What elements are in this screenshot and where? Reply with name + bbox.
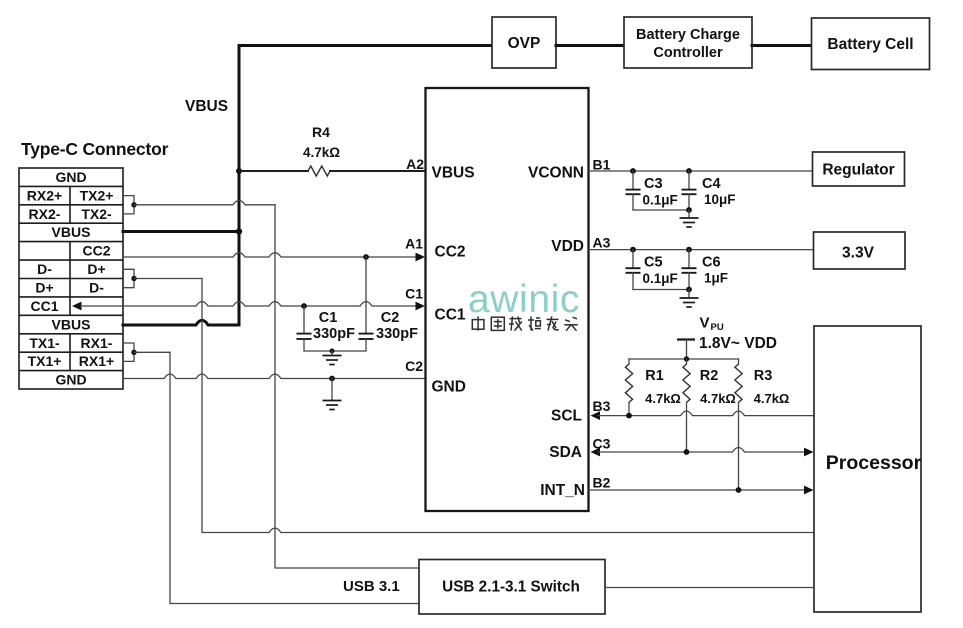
capacitor C5 [626,250,641,290]
power VPU symbol [677,340,695,360]
label VPU [700,315,724,334]
svg-text:VDD: VDD [551,238,584,255]
svg-text:SCL: SCL [551,408,582,425]
svg-text:GND: GND [432,379,466,396]
capacitor C3 [626,171,641,210]
svg-text:Processor: Processor [826,452,922,474]
junction CC1 cap C1 tee [301,303,307,309]
svg-text:R3: R3 [754,368,773,384]
wire GND row12 to IC with hops [123,374,426,378]
svg-text:VBUS: VBUS [52,316,91,332]
wire controller to battery cell [752,44,812,47]
wire INT_N to processor [588,489,805,491]
junction CC2 cap C2 tee [363,254,369,260]
wire VBUS row9 to bus with hop [123,320,239,325]
svg-text:OVP: OVP [508,35,541,52]
wire C1 C2 bottom rail [304,339,366,351]
svg-text:PU: PU [711,322,724,333]
box regulator [813,152,905,186]
ground under C5 C6 [680,290,699,308]
wire RX2 column down to USB switch [275,205,419,568]
wire TX1 column down to USB switch [170,352,419,603]
svg-text:INT_N: INT_N [540,482,585,499]
wire CC2 table to IC with hops [123,253,417,257]
wire C5 C6 ground rail [633,289,689,291]
svg-text:RX1+: RX1+ [79,353,114,369]
wire VBUS row4 to bus [123,230,239,233]
wire SDA to processor [598,448,805,453]
bracket RX2 pair [123,196,134,214]
svg-text:10μF: 10μF [704,192,736,207]
svg-text:Battery Charge: Battery Charge [636,27,740,43]
svg-text:V: V [700,315,710,332]
svg-text:0.1μF: 0.1μF [643,271,678,286]
capacitor C2 [359,334,374,339]
svg-text:D-: D- [37,261,52,277]
svg-text:A2: A2 [406,156,424,172]
box battery charge controller [624,17,752,68]
resistor R3 [735,359,742,490]
junction TX1 bracket [131,350,136,355]
svg-text:C2: C2 [381,310,400,326]
junction C4 rail [686,207,692,213]
svg-text:Battery Cell: Battery Cell [827,36,913,53]
svg-text:USB 2.1-3.1 Switch: USB 2.1-3.1 Switch [442,579,580,596]
svg-text:CC1: CC1 [435,307,466,324]
svg-text:TX1+: TX1+ [28,353,62,369]
svg-text:VBUS: VBUS [432,165,475,182]
resistor R1 [625,359,632,416]
arrow SCL into IC [591,411,601,420]
wire R4 to pin A2 [330,170,426,172]
arrow CC1 into connector [72,302,82,311]
bracket D pair [123,269,134,287]
arrow CC1 into IC [416,302,426,311]
svg-text:1μF: 1μF [704,271,728,286]
junction C3 tee [630,168,636,174]
svg-text:A1: A1 [405,236,423,252]
svg-text:SDA: SDA [549,444,582,461]
wire TX1 pair to column [134,351,170,353]
svg-text:GND: GND [55,372,86,388]
svg-text:0.1μF: 0.1μF [643,193,678,208]
svg-text:4.7kΩ: 4.7kΩ [303,145,340,160]
svg-text:C1: C1 [319,310,338,326]
arrow INT_N into processor [804,486,814,495]
svg-text:D+: D+ [35,280,53,296]
svg-text:R1: R1 [645,368,664,384]
wire switch to processor [605,587,814,589]
arrow SDA into IC [591,448,601,457]
svg-text:4.7kΩ: 4.7kΩ [700,391,736,406]
svg-text:R2: R2 [700,368,719,384]
ground under C1 C2 [323,351,342,365]
svg-text:TX1-: TX1- [29,335,60,351]
svg-text:330pF: 330pF [376,326,418,342]
ground under GND wire [323,379,342,410]
wire VBUS bus vertical [238,46,241,324]
wire C1 cap stem [303,306,305,333]
svg-text:D+: D+ [87,261,105,277]
resistor R2 [683,359,690,452]
capacitor C4 [682,171,697,210]
junction cap rail [330,349,335,354]
svg-text:4.7kΩ: 4.7kΩ [645,391,681,406]
wire RX2 pair to switch column with hop over VBUS bus [134,200,275,204]
svg-text:3.3V: 3.3V [842,245,875,262]
wire C3 C4 ground rail [633,209,689,211]
svg-text:C4: C4 [702,176,721,192]
svg-text:GND: GND [55,169,86,185]
wire VBUS to OVP [239,44,492,47]
svg-text:VBUS: VBUS [185,98,228,115]
svg-text:Type-C Connector: Type-C Connector [21,139,169,159]
svg-text:4.7kΩ: 4.7kΩ [754,391,790,406]
junction R2 SDA [684,449,690,455]
logo chinese characters [472,316,578,330]
junction A2 tee [236,168,242,174]
svg-text:D-: D- [89,280,104,296]
junction C4 tee [686,168,692,174]
op-amp U1 USB type-C controller IC body [426,88,589,511]
svg-text:B1: B1 [593,157,611,173]
box OVP [492,17,556,68]
junction C6 rail [686,287,692,293]
junction VBUS row4 tee [236,228,242,234]
svg-text:C6: C6 [702,255,721,271]
svg-text:RX1-: RX1- [81,335,113,351]
svg-text:CC2: CC2 [82,243,110,259]
svg-text:B3: B3 [593,398,611,414]
svg-text:TX2+: TX2+ [80,187,114,203]
wire CC1 table to IC with hops [81,302,417,306]
junction GND ground stem [329,376,335,382]
svg-text:C2: C2 [405,358,423,374]
wire VCONN to regulator [588,170,813,172]
svg-text:RX2-: RX2- [29,206,61,222]
svg-text:RX2+: RX2+ [27,187,62,203]
Type-C connector pin table [19,168,123,389]
wire D column down to processor with hop [202,279,814,533]
wire C2 cap stem with hop over CC1 [365,257,367,333]
svg-text:VBUS: VBUS [52,224,91,240]
junction R1 SCL [626,413,632,419]
svg-text:TX2-: TX2- [81,206,112,222]
arrow SDA into processor [804,448,814,457]
svg-text:330pF: 330pF [313,326,355,342]
junction D bracket [131,276,136,281]
svg-text:CC2: CC2 [435,244,466,261]
capacitor C6 [682,250,697,290]
svg-text:VCONN: VCONN [528,165,584,182]
wire VDD to 3.3V [588,249,814,251]
svg-text:C3: C3 [593,436,611,452]
svg-text:R4: R4 [312,124,330,140]
box USB 2.1-3.1 switch [419,560,605,615]
svg-text:A3: A3 [593,235,611,251]
wire pull-up rail [629,358,739,360]
wire VBUS to R4 [239,170,308,172]
svg-text:C5: C5 [644,255,663,271]
svg-text:awinic: awinic [468,278,580,321]
junction C5 tee [630,247,636,253]
box processor [814,326,921,612]
svg-text:B2: B2 [593,475,611,491]
svg-text:1.8V~ VDD: 1.8V~ VDD [699,335,777,352]
box 3.3V [814,232,906,269]
bracket TX1 pair [123,343,134,361]
svg-text:C3: C3 [644,176,663,192]
junction VPU rail [684,356,689,361]
ground under C3 C4 [680,210,699,227]
svg-text:Controller: Controller [653,45,723,61]
junction C6 tee [686,247,692,253]
label Battery Charge Controller [636,27,740,61]
svg-text:CC1: CC1 [30,298,58,314]
wire OVP to battery charge controller [556,44,624,47]
svg-text:Regulator: Regulator [822,162,894,179]
svg-text:C1: C1 [405,286,423,302]
svg-text:USB 3.1: USB 3.1 [343,578,400,595]
capacitor C1 [297,334,312,339]
box battery cell [812,18,930,70]
arrow CC2 into IC [416,253,426,262]
resistor R4 [308,166,330,176]
wire D pair to column [134,278,202,280]
junction RX2 bracket [131,202,136,207]
junction R3 INT_N [736,487,742,493]
wire SCL to processor [598,411,814,416]
